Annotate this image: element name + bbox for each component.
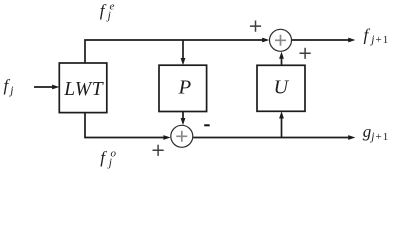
svg-text:j: j xyxy=(8,85,13,97)
arrowhead: into top adder left xyxy=(262,38,269,43)
sign - above-right of subtractor xyxy=(204,124,210,126)
sign + above-left of top adder xyxy=(250,21,261,32)
wire: input f_j to LWT xyxy=(34,86,54,88)
svg-text:f: f xyxy=(100,148,107,167)
wire: adder output right to f_j+1 xyxy=(292,39,349,41)
svg-text:j+1: j+1 xyxy=(369,34,389,46)
wire: U output up to adder xyxy=(281,58,283,66)
arrowhead: up into U bottom xyxy=(279,111,284,118)
svg-text:f: f xyxy=(364,26,371,45)
adder (top) circle xyxy=(270,29,292,51)
box P xyxy=(159,65,207,111)
arrowhead: to g_j+1 xyxy=(348,135,355,140)
arrowhead: to f_j+1 xyxy=(348,38,355,43)
svg-text:j: j xyxy=(107,157,112,169)
svg-text:f: f xyxy=(100,1,107,20)
arrowhead: down into subtractor top xyxy=(181,118,186,125)
svg-text:LWT: LWT xyxy=(63,79,104,100)
box U xyxy=(257,65,305,111)
sign + below-right of top adder xyxy=(300,48,311,59)
wire: P output down to subtractor xyxy=(182,112,184,120)
arrowhead: down into P xyxy=(181,58,186,65)
svg-text:g: g xyxy=(363,122,372,141)
arrowhead: into subtractor left xyxy=(163,135,170,140)
wire: subtractor output right to g_j+1 xyxy=(193,137,348,139)
svg-text:U: U xyxy=(274,76,290,98)
sign + below-left of subtractor xyxy=(153,145,164,156)
subtractor (bottom) circle xyxy=(171,125,193,147)
wire: LWT top to top rail corner xyxy=(85,40,263,64)
wire: branch up into U xyxy=(281,118,283,138)
box LWT xyxy=(59,63,107,113)
wire: LWT bottom to bottom rail corner xyxy=(85,113,165,138)
arrowhead: into LWT left xyxy=(52,85,59,90)
arrowhead: up into top adder bottom xyxy=(279,52,284,59)
plus inside bottom adder xyxy=(176,131,187,142)
svg-text:P: P xyxy=(178,77,192,99)
plus inside top adder xyxy=(275,35,286,46)
svg-text:j+1: j+1 xyxy=(369,131,389,143)
wire: branch down to P xyxy=(182,40,184,60)
svg-text:j: j xyxy=(106,10,111,22)
